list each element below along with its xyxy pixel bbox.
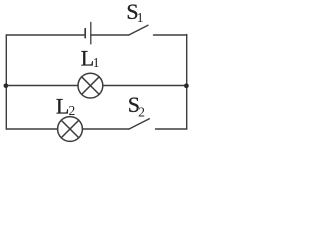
lamp L1 circle	[78, 73, 103, 98]
wire: top-left horizontal from left rail to battery	[6, 34, 84, 36]
wire: left rail vertical	[5, 35, 7, 129]
junction node right (middle branch / right rail)	[184, 83, 189, 88]
battery cell (long positive plate)	[90, 22, 92, 44]
wire: S2 fixed contact to bottom-right corner	[156, 128, 187, 130]
lamp L2 circle	[58, 117, 83, 142]
svg-text:1: 1	[93, 55, 100, 70]
wire: right rail vertical	[186, 35, 188, 130]
wire: bottom left horizontal	[6, 128, 57, 130]
wire: S1 fixed contact to top-right corner	[154, 34, 187, 36]
svg-text:2: 2	[138, 105, 145, 120]
lamp L2 cross	[61, 120, 79, 138]
switch S2 blade (open)	[129, 119, 149, 129]
wire: battery to switch S1 pivot	[91, 34, 129, 36]
svg-text:2: 2	[69, 103, 76, 118]
wire: middle branch left segment	[6, 85, 78, 87]
wire: L2 to switch S2 pivot	[82, 128, 129, 130]
battery cell (short negative plate)	[84, 29, 86, 38]
junction node left (middle branch / left rail)	[4, 83, 9, 88]
lamp L1 cross	[82, 77, 100, 95]
svg-text:1: 1	[137, 10, 144, 25]
svg-text:L: L	[56, 93, 69, 118]
switch S1 blade (open)	[129, 25, 148, 35]
wire: middle branch right segment	[103, 85, 187, 87]
